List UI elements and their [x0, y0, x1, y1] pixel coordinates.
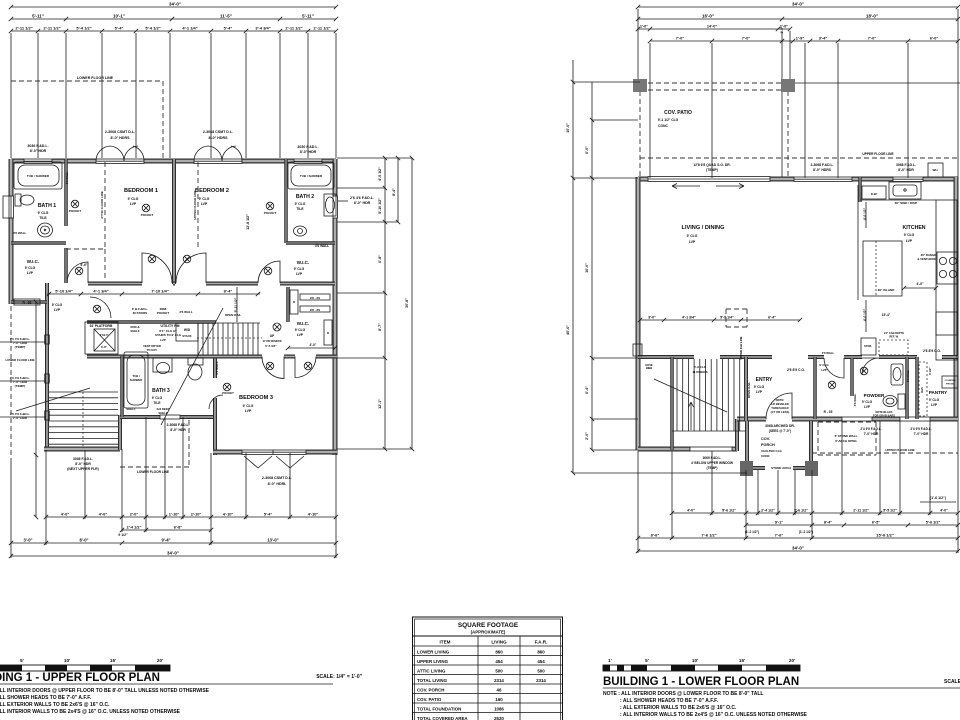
svg-text:8'-0": 8'-0" [79, 537, 88, 542]
svg-text:STONE ARCH: STONE ARCH [771, 466, 791, 470]
svg-text:5'-9 1/4": 5'-9 1/4" [720, 315, 734, 319]
upper plan exterior - top wall [11, 159, 24, 164]
svg-text:TOTAL COVERED AREA: TOTAL COVERED AREA [417, 716, 468, 720]
svg-text:7'-0": 7'-0" [868, 35, 877, 40]
svg-text:2'-11 1/2": 2'-11 1/2" [313, 25, 330, 30]
svg-text:1'-10": 1'-10" [169, 511, 180, 516]
upper plan - stair bay left wall [45, 283, 49, 450]
svg-text:4'-1 3/4": 4'-1 3/4" [682, 315, 696, 319]
svg-text:9'-1 1/2" CLG: 9'-1 1/2" CLG [658, 118, 679, 122]
svg-text:16'-0": 16'-0" [702, 13, 714, 18]
svg-text:13'-0": 13'-0" [267, 537, 278, 542]
svg-text:(APPROXIMATE): (APPROXIMATE) [471, 630, 506, 635]
svg-text:5'-4": 5'-4" [264, 511, 273, 516]
svg-text:15'-6 1/2": 15'-6 1/2" [876, 532, 894, 537]
svg-text:3'6 WALL: 3'6 WALL [822, 351, 835, 355]
upper plan right side extension lines [337, 157, 412, 159]
lower plan - stair bay step wall [735, 419, 739, 451]
svg-text:POCKET: POCKET [222, 391, 234, 395]
wic3 R&S strip [324, 320, 332, 345]
upper plan interior - bath3 left wall [120, 356, 124, 417]
svg-text:BEDROOM 3: BEDROOM 3 [239, 395, 273, 401]
svg-text:5'-5 3/4": 5'-5 3/4" [265, 344, 277, 348]
platform box [85, 322, 118, 354]
upper floor plan - dim row 2 [11, 18, 336, 20]
svg-text:(1'-2 1/2"): (1'-2 1/2") [745, 530, 759, 534]
svg-text:LVP: LVP [864, 405, 871, 409]
svg-text:SHELF: SHELF [126, 407, 135, 411]
upper plan interior - mid wall above bath3/bedroom3 [87, 355, 262, 359]
left outside dashed line [10, 306, 12, 458]
svg-text:2'6 8'9 C.O.: 2'6 8'9 C.O. [787, 368, 805, 372]
upper plan - bedroom3 bottom window frame [242, 450, 306, 455]
svg-text:UPPER FLOOR LINE: UPPER FLOOR LINE [862, 152, 893, 156]
svg-text:W.I.C.: W.I.C. [297, 260, 310, 265]
svg-text:BATH 3: BATH 3 [152, 388, 170, 394]
svg-text:TO EXT.: TO EXT. [147, 348, 158, 352]
svg-text:8'-0" HDR: 8'-0" HDR [300, 150, 317, 154]
lower stairs treads left bay [49, 391, 118, 393]
svg-text:BEDROOM 2: BEDROOM 2 [195, 188, 229, 194]
svg-text:5': 5' [20, 658, 24, 663]
washer dryer box [176, 323, 198, 341]
svg-text:BUILDING 1 - LOWER FLOOR PLAN: BUILDING 1 - LOWER FLOOR PLAN [603, 676, 799, 688]
svg-text:(1'-2 1/2"): (1'-2 1/2") [799, 530, 813, 534]
svg-text:SHELF: SHELF [158, 411, 167, 415]
svg-text:6'-0": 6'-0" [585, 146, 589, 154]
svg-text:2'-10": 2'-10" [191, 511, 202, 516]
pantry shelf strip dashed [919, 362, 927, 416]
svg-text:ITEM: ITEM [440, 640, 451, 645]
svg-text:8'-7": 8'-7" [378, 323, 382, 331]
svg-text:TILE: TILE [39, 216, 47, 220]
svg-text:(NEXT UPPER FLR): (NEXT UPPER FLR) [67, 467, 98, 471]
svg-text:24" CAB DEPTH: 24" CAB DEPTH [884, 331, 904, 335]
svg-text:KITCHEN: KITCHEN [902, 225, 925, 231]
svg-text:W.I.C.: W.I.C. [297, 321, 310, 326]
upper plan bottom dim row 2 [122, 529, 211, 531]
upper floor line dashed bottom right [812, 452, 958, 454]
svg-text:TUB / SHOWER: TUB / SHOWER [27, 174, 50, 178]
storage closet [861, 338, 876, 355]
svg-text:7'-0" HDR: 7'-0" HDR [864, 432, 879, 436]
svg-text:6'-5": 6'-5" [872, 520, 880, 524]
svg-text:5'-4": 5'-4" [115, 25, 124, 30]
svg-text:15': 15' [110, 658, 116, 663]
svg-text:30'-8": 30'-8" [405, 298, 409, 308]
svg-text:5': 5' [645, 658, 649, 663]
svg-text:TUB / SHOWER: TUB / SHOWER [300, 174, 323, 178]
svg-text:W/D: W/D [184, 328, 191, 332]
svg-text:2'-11 1/2": 2'-11 1/2" [853, 508, 869, 512]
upper plan bottom dim row 1 [46, 516, 336, 518]
lower plan left extension lines [573, 81, 640, 83]
lower plan - cov patio dashed outline [640, 82, 788, 84]
svg-text:8'-4": 8'-4" [224, 288, 233, 293]
kitchen counter right [936, 200, 957, 360]
svg-text:ATTIC FLOOR LINE: ATTIC FLOOR LINE [100, 191, 104, 219]
svg-text:FOR GRAB BARS: FOR GRAB BARS [873, 414, 895, 418]
svg-text:2'-4 1/2": 2'-4 1/2" [127, 524, 142, 529]
svg-text:454: 454 [495, 659, 503, 664]
svg-text:IN STAIRS: IN STAIRS [133, 311, 148, 315]
svg-text:R: R [327, 331, 329, 335]
svg-text:18'-0": 18'-0" [866, 13, 878, 18]
svg-text:8'-0" HDRL: 8'-0" HDRL [268, 482, 288, 486]
svg-text:3'-4 3/4": 3'-4 3/4" [255, 25, 270, 30]
svg-text:LVP: LVP [54, 308, 61, 312]
upper plan - stair bay right wall lower [118, 415, 122, 450]
hall closet door arc [824, 358, 844, 378]
svg-text:CONC: CONC [658, 124, 668, 128]
svg-text:3'-0": 3'-0" [23, 537, 32, 542]
upper plan - bedroom3 bottom wall [213, 450, 242, 455]
upper plan right side dim line mid [397, 158, 399, 222]
bedroom1 pocket knob [142, 204, 150, 212]
pantry left wall [915, 357, 919, 419]
svg-text:BATH 2: BATH 2 [296, 194, 314, 200]
svg-text:7'-6 1/2": 7'-6 1/2" [701, 532, 716, 537]
svg-text:LVP: LVP [201, 202, 208, 206]
svg-text:& VENTHOOD: & VENTHOOD [917, 257, 936, 261]
svg-text:6'-4": 6'-4" [768, 315, 776, 319]
svg-text:2314: 2314 [494, 678, 504, 683]
ref cabinet [879, 340, 908, 355]
svg-text:3'-0": 3'-0" [648, 315, 656, 319]
svg-text:ALL EXTERIOR WALLS TO BE 2x6'S: ALL EXTERIOR WALLS TO BE 2x6'S @ 16" O.C… [0, 702, 110, 708]
svg-text:8'-0" HDR: 8'-0" HDR [75, 462, 91, 466]
svg-text:34' PLATFORM: 34' PLATFORM [90, 324, 113, 328]
svg-text:UP: UP [270, 334, 275, 338]
svg-text:4'-5 1/2": 4'-5 1/2" [378, 167, 382, 181]
svg-text:9' CLG: 9' CLG [294, 267, 305, 271]
svg-text:NOTE BLACK: NOTE BLACK [875, 410, 892, 414]
svg-text:TOTAL LIVING: TOTAL LIVING [417, 678, 448, 683]
upper plan bottom extension lines [10, 458, 12, 558]
svg-text:8'-0" HDRS: 8'-0" HDRS [813, 168, 832, 172]
svg-text:8'-0" HDR: 8'-0" HDR [30, 149, 47, 153]
upper plan - left wall window frame [9, 196, 14, 218]
lower stairs enclosure right [744, 357, 748, 421]
svg-text:OPEN RAIL: OPEN RAIL [225, 313, 242, 317]
upper plan interior - bath1 bottom wall [11, 241, 66, 245]
lower floor line dashed near bath3 [188, 420, 190, 468]
svg-text:LOWER FLOOR LINE: LOWER FLOOR LINE [137, 470, 169, 474]
upper plan - bedroom3 casement V symbols [244, 456, 272, 468]
svg-text:PORCH: PORCH [761, 443, 775, 447]
svg-text:9' CLG: 9' CLG [38, 211, 49, 215]
svg-text:5'-4": 5'-4" [224, 25, 233, 30]
svg-text:5'-11": 5'-11" [32, 13, 44, 18]
svg-text:7'-0": 7'-0" [676, 35, 685, 40]
svg-text:LVP: LVP [906, 239, 913, 243]
kitchen sink [889, 182, 921, 199]
svg-text:9'-4": 9'-4" [161, 537, 170, 542]
wic1 knob [75, 267, 83, 275]
svg-text:SQUARE FOOTAGE: SQUARE FOOTAGE [458, 622, 519, 629]
svg-text:D.W.: D.W. [871, 192, 878, 196]
svg-text:9' CLG: 9' CLG [862, 400, 873, 404]
svg-text:ALL SHOWER HEADS TO BE 7'-0" A: ALL SHOWER HEADS TO BE 7'-0" A.F.F. [0, 695, 92, 701]
svg-text:2'-6 1/2": 2'-6 1/2" [794, 508, 808, 512]
svg-text:BIBB: BIBB [646, 366, 652, 370]
svg-text:8'-6": 8'-6" [651, 532, 660, 537]
svg-text:5'-6 1/2": 5'-6 1/2" [926, 520, 941, 524]
svg-text:14'-0": 14'-0" [707, 24, 718, 28]
svg-text:REF. W.: REF. W. [889, 335, 899, 339]
lower plan interior - mid wall [638, 355, 694, 359]
svg-text:6'-0": 6'-0" [930, 35, 939, 40]
entry door arc [766, 393, 792, 419]
svg-text:9' CLG: 9' CLG [243, 404, 254, 408]
svg-text:15'-4": 15'-4" [882, 313, 891, 317]
svg-text:SCALE: 1/4" = 1'-0": SCALE: 1/4" = 1'-0" [316, 674, 362, 680]
cov porch right wall [809, 421, 813, 468]
svg-text:LIVING / DINING: LIVING / DINING [682, 225, 725, 231]
svg-text:TILE: TILE [296, 207, 304, 211]
upper stairs treads [197, 323, 199, 355]
svg-text:48" ISLAND: 48" ISLAND [878, 288, 896, 292]
svg-text:SCALE: 1/4" = 1'-0": SCALE: 1/4" = 1'-0" [944, 679, 960, 685]
svg-text:46: 46 [497, 687, 502, 692]
svg-text:POCKET: POCKET [69, 209, 82, 213]
upper plan interior - bedroom bottom wall [88, 282, 142, 286]
svg-text:10': 10' [692, 658, 698, 663]
svg-text:LVP: LVP [160, 338, 166, 342]
lower plan - dim row 4 [650, 40, 958, 42]
kitchen island [863, 241, 902, 296]
svg-text:2-3068 F.&D.L.: 2-3068 F.&D.L. [811, 163, 834, 167]
svg-text:4'-0": 4'-0" [940, 508, 948, 512]
svg-text:454: 454 [537, 659, 545, 664]
svg-text:1086: 1086 [494, 706, 504, 711]
svg-text:4'-0": 4'-0" [99, 511, 108, 516]
svg-text:W.I.C.: W.I.C. [27, 259, 40, 264]
svg-text:7'-0": 7'-0" [742, 35, 751, 40]
svg-text:36" SINK / DISP.: 36" SINK / DISP. [895, 201, 918, 205]
svg-text:3'6 WALL: 3'6 WALL [215, 361, 219, 375]
upper stairs centerline [197, 337, 262, 339]
svg-text:5'-6 1/2": 5'-6 1/2" [722, 508, 736, 512]
wic2 shelf [290, 290, 298, 314]
svg-text:17 DN RISERS: 17 DN RISERS [262, 339, 281, 343]
svg-text:4'X4.5': 4'X4.5' [100, 333, 109, 337]
upper floor line dashed across lower plan [640, 157, 958, 159]
svg-text:9' CLG: 9' CLG [904, 233, 915, 237]
svg-text:4'-0 1/2": 4'-0 1/2" [863, 207, 867, 220]
svg-text:(CT OR LESS): (CT OR LESS) [771, 410, 790, 414]
svg-text:9' CLG: 9' CLG [754, 385, 765, 389]
upper plan exterior - right wall [333, 159, 338, 196]
svg-text:ALL INTERIOR DOORS @ UPPER FLO: ALL INTERIOR DOORS @ UPPER FLOOR TO BE 8… [0, 688, 210, 694]
svg-text:3'6 WALL: 3'6 WALL [906, 369, 910, 382]
left outside dim line [35, 302, 37, 517]
svg-text:2-3068 F.&D.L.: 2-3068 F.&D.L. [167, 423, 190, 427]
svg-text:4'-10": 4'-10" [223, 511, 234, 516]
svg-text:LVP: LVP [756, 390, 763, 394]
bedroom1 door arc [142, 253, 172, 283]
bath2 tub [288, 162, 334, 189]
svg-text:R - 39: R - 39 [824, 410, 833, 414]
svg-text:7'-6": 7'-6" [775, 532, 784, 537]
svg-text:20': 20' [789, 658, 795, 663]
svg-text:2'-0": 2'-0" [130, 511, 139, 516]
svg-text:F.A.R.: F.A.R. [535, 640, 548, 645]
svg-text:2'-11 1/2": 2'-11 1/2" [43, 25, 60, 30]
bath2 vanity [324, 194, 336, 216]
upper floor plan - top dimension line 34'-0" [11, 6, 336, 8]
lower stairs enclosure left [670, 357, 674, 450]
svg-text:8'-0" HDR: 8'-0" HDR [170, 428, 186, 432]
lower plan bottom dim row 4 [638, 550, 958, 552]
svg-text:11'-5": 11'-5" [220, 13, 232, 18]
upper plan - stair bay bottom wall [44, 447, 120, 452]
svg-text:SHOWER: SHOWER [130, 378, 143, 382]
svg-text:10'-1": 10'-1" [113, 13, 125, 18]
svg-text:STAIRS TO 9' CLG: STAIRS TO 9' CLG [155, 333, 182, 337]
svg-text:BUILDING 1 - UPPER FLOOR PLAN: BUILDING 1 - UPPER FLOOR PLAN [0, 672, 160, 684]
upper plan - casement V symbols left window [96, 146, 110, 161]
svg-text:12'-8 1/2": 12'-8 1/2" [246, 214, 250, 230]
svg-text:4'-0": 4'-0" [61, 511, 70, 516]
upper plan - bedroom3 left wall [213, 358, 217, 378]
kitchen counter edge line [857, 185, 859, 300]
svg-text:ENTRY: ENTRY [756, 377, 773, 383]
lower plan scale bar [603, 665, 800, 671]
svg-text:3030 F.&D.L.: 3030 F.&D.L. [297, 145, 318, 149]
upper plan scale bar [0, 665, 170, 671]
hall closet left wall [813, 357, 817, 419]
svg-text:(SEES @ 7'-0"): (SEES @ 7'-0") [769, 429, 791, 433]
svg-text:4'-0": 4'-0" [916, 282, 924, 286]
svg-text:3068 F.&D.L.: 3068 F.&D.L. [896, 163, 916, 167]
upper plan right side dim line inner [384, 158, 386, 449]
svg-text:8'-0" HDR: 8'-0" HDR [898, 168, 914, 172]
upper plan interior - wic1 bottom wall [11, 300, 47, 304]
svg-text:9' CLG: 9' CLG [128, 197, 139, 201]
svg-text:5'-9 CLG: 5'-9 CLG [694, 365, 707, 369]
svg-text:TOTAL FOUNDATION: TOTAL FOUNDATION [417, 706, 461, 711]
svg-text:LVP: LVP [245, 409, 252, 413]
svg-text:LVP: LVP [689, 240, 696, 244]
svg-text:2-3068 CSMT D.L.: 2-3068 CSMT D.L. [105, 130, 135, 134]
upper plan interior - bath1/bedroom1 wall [64, 159, 68, 226]
svg-text:LOWER FLOOR LINE: LOWER FLOOR LINE [5, 358, 34, 362]
svg-text:PROVD: PROVD [946, 384, 954, 386]
svg-text:16'-0": 16'-0" [585, 263, 589, 273]
svg-text:2'-4 1/2": 2'-4 1/2" [761, 508, 775, 512]
svg-text:(1'-6 1/2"): (1'-6 1/2") [930, 496, 947, 500]
lower plan bottom dim row 1 [672, 512, 958, 514]
lower plan - top wall window frames [794, 177, 852, 182]
kitchen fridge [936, 312, 957, 335]
lower plan exterior - left wall [636, 177, 641, 450]
svg-text:1': 1' [608, 658, 612, 663]
svg-text:9' CLG: 9' CLG [295, 202, 306, 206]
svg-text:R: R [293, 300, 295, 304]
svg-text:2'6 4'6 F.&D.L.: 2'6 4'6 F.&D.L. [350, 196, 374, 200]
bath3 door arc [209, 395, 223, 409]
svg-text:1'-0": 1'-0" [640, 24, 648, 28]
upper plan bottom dim row 3 [11, 542, 336, 544]
bath1 pedestal sink [38, 223, 53, 237]
svg-text:2R - 3S: 2R - 3S [310, 308, 320, 312]
bath1 toilet [15, 194, 21, 206]
svg-text:3036 F.&D.L.: 3036 F.&D.L. [27, 144, 48, 148]
svg-text:12'8 6'8 QUAD S.G. DR.: 12'8 6'8 QUAD S.G. DR. [693, 163, 730, 167]
svg-text:4'-0": 4'-0" [687, 508, 695, 512]
svg-text:TILE: TILE [153, 401, 161, 405]
stair closet door arc [90, 297, 111, 318]
bedroom2 pocket knob [266, 202, 274, 210]
svg-text:: ALL EXTERIOR WALLS TO BE 2x6: : ALL EXTERIOR WALLS TO BE 2x6'S @ 16" O… [620, 705, 737, 711]
lower plan bottom dim row 3 [638, 537, 958, 539]
svg-text:2'4 9'9 F.&D.L.: 2'4 9'9 F.&D.L. [860, 427, 881, 431]
svg-text:9' CLG: 9' CLG [687, 234, 698, 238]
svg-text:LVP: LVP [296, 272, 303, 276]
svg-text:2314: 2314 [536, 678, 546, 683]
svg-text:BATH 1: BATH 1 [38, 203, 56, 209]
svg-text:COUNTER: COUNTER [945, 380, 956, 382]
svg-text:9 1/2": 9 1/2" [118, 533, 128, 537]
svg-text:UPPER FLOOR LINE: UPPER FLOOR LINE [193, 190, 197, 219]
svg-text:500: 500 [537, 668, 545, 673]
svg-text:LVP: LVP [297, 333, 304, 337]
svg-text:2-3068 CSMT D.L.: 2-3068 CSMT D.L. [262, 476, 292, 480]
svg-text:3'-4": 3'-4" [819, 35, 828, 40]
svg-text:4'-1 3/4": 4'-1 3/4" [93, 288, 108, 293]
lower plan left dim line inner [591, 82, 593, 450]
svg-text:3068 ARCHED DR.: 3068 ARCHED DR. [765, 424, 795, 428]
svg-text:VAULTED CLG: VAULTED CLG [761, 449, 783, 453]
wic3 door arcs on mid wall [262, 357, 284, 379]
patio corner posts [633, 79, 647, 92]
living dashed box [726, 308, 747, 310]
svg-text:20': 20' [157, 658, 163, 663]
powder sink vanity [891, 364, 903, 385]
svg-text:UTILITY RM: UTILITY RM [161, 324, 180, 328]
upper plan - extension lines from top dims to wall [10, 33, 12, 158]
svg-text:9' CLG: 9' CLG [199, 197, 210, 201]
lower plan left dim line outer [572, 60, 574, 473]
svg-text:3'6 WALL: 3'6 WALL [853, 393, 857, 406]
svg-text:ALL INTERIOR WALLS TO BE 2x4'S: ALL INTERIOR WALLS TO BE 2x4'S @ 16" O.C… [0, 709, 181, 715]
svg-text:1'-9": 1'-9" [796, 35, 805, 40]
svg-text:LOWER FLOOR LINE: LOWER FLOOR LINE [77, 76, 114, 80]
svg-text:LIVING: LIVING [491, 640, 507, 645]
lower plan exterior - stair bay bottom wall [638, 447, 690, 452]
svg-text:OPEN RAIL: OPEN RAIL [747, 382, 751, 399]
stair diagonal line [161, 308, 223, 425]
svg-text:9' CLG: 9' CLG [25, 266, 36, 270]
svg-text:5'-10 1/4": 5'-10 1/4" [55, 288, 73, 293]
svg-text:POWDER: POWDER [864, 393, 885, 398]
svg-text:9' CLG: 9' CLG [819, 363, 829, 367]
svg-text:WH: WH [933, 168, 938, 172]
kitchen counter line [860, 199, 936, 201]
water heater box [928, 163, 943, 177]
svg-text:: ALL INTERIOR WALLS TO BE 2x4: : ALL INTERIOR WALLS TO BE 2x4'S @ 16" O… [620, 712, 808, 718]
lower plan - quad slider door [648, 177, 770, 182]
svg-text:860: 860 [537, 649, 545, 654]
svg-text:8 1/2": 8 1/2" [928, 367, 932, 375]
svg-text:10'-0": 10'-0" [566, 123, 570, 133]
lower plan exterior - right wall [954, 177, 959, 421]
svg-text:6'-8": 6'-8" [174, 524, 183, 529]
svg-text:500: 500 [495, 668, 503, 673]
svg-text:PANTRY: PANTRY [929, 390, 947, 395]
svg-text:3'6 WALL: 3'6 WALL [315, 244, 329, 248]
